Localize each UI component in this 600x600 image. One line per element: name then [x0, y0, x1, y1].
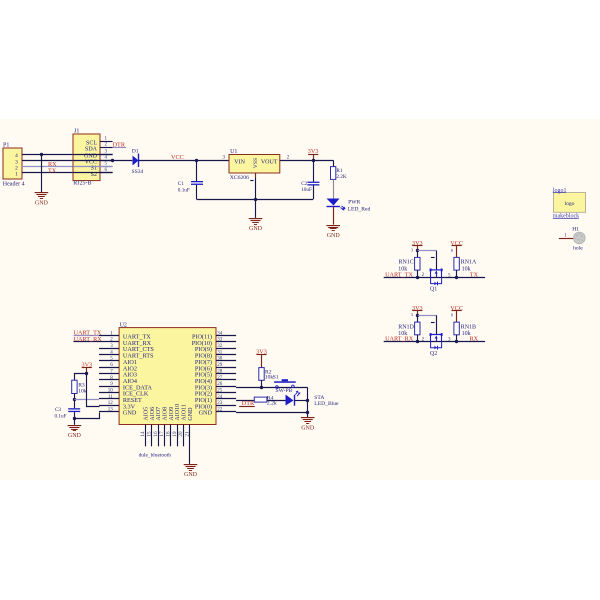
svg-text:LED_Blue: LED_Blue	[314, 401, 339, 407]
svg-text:GND: GND	[249, 226, 263, 232]
wire junction down to ground	[74, 418, 76, 424]
svg-text:GND: GND	[35, 200, 49, 206]
U2 left pin 6 stub	[99, 367, 119, 369]
U2 left pin 3 stub	[99, 348, 119, 350]
ground symbol GND (P1)	[35, 192, 49, 206]
logo frame logo1	[554, 193, 586, 213]
svg-text:RX: RX	[470, 336, 479, 343]
wire RN1B to row	[456, 335, 458, 342]
svg-text:0.1uF: 0.1uF	[178, 188, 190, 194]
svg-text:H1: H1	[572, 227, 579, 233]
wire U2 PIO(3) to switch row	[236, 387, 308, 389]
wire gate vertical	[436, 251, 438, 270]
wire GND row over J1	[73, 154, 113, 156]
diode D1 SS34	[133, 154, 139, 168]
gate bar tick	[431, 322, 435, 324]
svg-text:AIO7: AIO7	[156, 407, 162, 421]
U2 bottom pin 20 stub	[183, 425, 185, 447]
svg-text:R3: R3	[78, 382, 85, 388]
svg-text:SCL: SCL	[86, 140, 97, 146]
svg-text:S1: S1	[273, 375, 279, 381]
U2 left pin 2 stub	[99, 341, 119, 343]
U2 bottom pin 16 stub	[158, 425, 160, 447]
svg-text:GND: GND	[123, 410, 137, 417]
U2 right pin 28 stub	[216, 373, 236, 375]
svg-text:GND: GND	[327, 233, 341, 239]
svg-text:GND: GND	[199, 410, 213, 417]
capacitor C1 0.1uF	[191, 181, 203, 185]
svg-text:UART_RX: UART_RX	[74, 336, 103, 343]
junction on GND row	[40, 153, 43, 156]
svg-text:GND: GND	[184, 472, 198, 478]
regulator U1 XC6206	[229, 155, 280, 174]
supply symbol 3V3 (Q2)	[412, 305, 423, 316]
svg-text:RN1A: RN1A	[461, 260, 477, 266]
LED STA LED_Blue	[286, 391, 301, 406]
svg-text:D1: D1	[132, 149, 139, 155]
wire UART_TX row	[384, 277, 485, 279]
wire R2 bottom to row	[261, 380, 263, 387]
svg-text:SS34: SS34	[132, 169, 144, 175]
svg-text:DTR: DTR	[113, 141, 126, 148]
svg-text:2.2K: 2.2K	[336, 174, 346, 180]
svg-text:21: 21	[185, 431, 191, 437]
wire gate vertical	[436, 315, 438, 334]
svg-text:logo1: logo1	[553, 188, 567, 194]
resistor RN1B 10k	[454, 322, 459, 335]
svg-text:8: 8	[451, 312, 453, 317]
U2 left pin 7 stub	[99, 373, 119, 375]
wire S2 row over J1	[73, 172, 113, 174]
svg-text:GND: GND	[188, 407, 194, 421]
U2 bottom pin 18 stub	[170, 425, 172, 447]
svg-text:34: 34	[217, 331, 223, 336]
U2 right pin 33 stub	[216, 341, 236, 343]
DTR label underline	[239, 406, 255, 408]
junction R3/RESET	[73, 398, 76, 401]
svg-text:3: 3	[15, 159, 18, 165]
wire U1 vss to rail	[255, 178, 257, 199]
svg-text:3: 3	[411, 312, 413, 317]
supply symbol 3V3 (R2)	[256, 348, 267, 367]
U2 right pin 25 stub	[216, 392, 236, 394]
supply symbol VCC (Q2)	[450, 305, 463, 322]
wire R4 to LED_Blue	[267, 400, 286, 402]
wire 3V3 junction to RN1C	[417, 251, 419, 258]
svg-text:19: 19	[172, 431, 178, 437]
svg-text:10k: 10k	[78, 389, 87, 395]
svg-text:16: 16	[153, 431, 159, 437]
svg-text:AIO10: AIO10	[175, 404, 181, 421]
wire P1.1 to J1 S2 row	[22, 172, 113, 174]
gate bar tick	[431, 257, 435, 259]
wire C2 bottom to rail corner	[313, 186, 315, 200]
wire DTR net from U2 PIO(1)	[236, 400, 254, 402]
svg-text:10: 10	[108, 388, 114, 393]
svg-text:10k: 10k	[462, 266, 471, 272]
U2 right pin 31 stub	[216, 354, 236, 356]
svg-text:PWR: PWR	[348, 200, 360, 206]
svg-text:10k: 10k	[462, 331, 471, 337]
svg-text:12: 12	[108, 401, 114, 406]
svg-text:C3: C3	[55, 407, 61, 413]
U2 bottom pin 21 stub	[189, 425, 191, 464]
junction Q1 gate/3V3	[416, 249, 419, 252]
svg-text:J1: J1	[74, 128, 79, 134]
U2 left pin 10 stub	[99, 392, 119, 394]
U2 left pin 5 stub	[99, 360, 119, 362]
wire rail to ground symbol	[255, 199, 257, 218]
capacitor C2 10uF	[307, 182, 319, 186]
connector P1	[3, 148, 22, 179]
junction U1 ground at rail	[254, 198, 257, 201]
U2 left pin 9 stub	[99, 386, 119, 388]
wire R3 junction down to C3	[74, 400, 76, 408]
wire R3 bottom to junction	[74, 394, 76, 400]
svg-text:TX: TX	[48, 167, 57, 174]
svg-text:SW-PB: SW-PB	[276, 388, 293, 394]
U2 left pin 8 stub	[99, 379, 119, 381]
U2 right pin 29 stub	[216, 367, 236, 369]
wire gate horizontal (violet)	[417, 250, 436, 252]
ground symbol GND (LED_Blue)	[301, 417, 315, 432]
junction 3V3/C2	[312, 159, 315, 162]
junction RN1D row	[416, 340, 419, 343]
svg-text:26: 26	[217, 382, 223, 387]
svg-text:AIO5: AIO5	[143, 407, 149, 421]
wire R1 to LED anode	[333, 179, 335, 198]
switch S1 SW-PB	[274, 379, 296, 388]
svg-text:logo: logo	[565, 201, 575, 207]
wire 3V3 to R1	[333, 160, 335, 166]
svg-text:27: 27	[217, 376, 223, 381]
svg-text:UART_RX: UART_RX	[385, 336, 414, 343]
U2 right pin 27 stub	[216, 379, 236, 381]
wire VCC to RN1A handled; resistor RN1A 10k	[454, 257, 459, 270]
resistor RN1D 10k	[415, 322, 420, 335]
transistor Q2 dual MOSFET	[430, 333, 443, 349]
U2 right pin 32 stub	[216, 348, 236, 350]
svg-text:U1: U1	[230, 149, 237, 155]
svg-text:Header 4: Header 4	[3, 181, 25, 187]
svg-text:hole: hole	[573, 245, 583, 251]
H1 pin 1	[559, 238, 574, 240]
wire U2 GND pin22 row to vertical	[236, 412, 308, 414]
wire U1 VOUT to 3V3 junction	[280, 160, 333, 162]
svg-text:P1: P1	[3, 143, 9, 149]
wire P1.2 to J1 S1 row (RX net, violet)	[22, 166, 113, 168]
U2 right pin 26 stub	[216, 386, 236, 388]
wire 3V3 branch down to 3.3V row	[87, 374, 100, 407]
svg-text:10uF: 10uF	[301, 187, 312, 193]
svg-text:33: 33	[217, 338, 223, 343]
U2 bottom pin 14 stub	[145, 425, 147, 447]
ground symbol GND (C3)	[68, 425, 82, 439]
wire junction to R3 top	[75, 374, 87, 381]
svg-text:32: 32	[217, 344, 223, 349]
hole circle	[573, 232, 585, 244]
U2 left pin 13 stub	[99, 411, 119, 413]
svg-text:SDA: SDA	[85, 147, 98, 153]
svg-text:14: 14	[140, 431, 146, 437]
resistor R1 2.2K	[331, 167, 336, 180]
resistor R4 2.2k	[254, 397, 267, 402]
svg-text:RN1D: RN1D	[398, 324, 414, 330]
wire P1.3 to J1 VCC row	[22, 160, 113, 162]
U2 right pin 30 stub	[216, 360, 236, 362]
connector J1 RJ25-B	[73, 134, 100, 181]
svg-text:28: 28	[217, 369, 223, 374]
junction GND row/vertical	[306, 411, 309, 414]
svg-text:13: 13	[108, 408, 114, 413]
svg-text:GND: GND	[68, 433, 82, 439]
supply symbol VCC (Q1)	[450, 240, 463, 258]
J1 pin 1 stub	[100, 141, 113, 143]
U2 left pin 1 stub	[99, 335, 119, 337]
resistor RN1C 10k	[415, 257, 420, 270]
svg-text:VSS: VSS	[253, 158, 259, 168]
svg-text:UART_TX: UART_TX	[385, 272, 413, 279]
supply symbol 3V3 (R3)	[81, 361, 92, 373]
wire down to C1	[196, 160, 198, 181]
svg-text:0.1uF: 0.1uF	[55, 414, 67, 420]
svg-text:AIO6: AIO6	[150, 407, 156, 421]
wire RN1C to row	[417, 270, 419, 277]
U2 right pin 23 stub	[216, 405, 236, 407]
svg-text:LED_Red: LED_Red	[348, 206, 371, 212]
wire junction to ground	[41, 154, 43, 192]
junction C3/GND	[73, 417, 76, 420]
svg-text:RN1B: RN1B	[461, 324, 476, 330]
svg-text:8: 8	[451, 248, 453, 253]
wire LED cathode to ground	[333, 207, 335, 225]
svg-text:31: 31	[217, 350, 223, 355]
wire RESET net to U2 pin 11 (violet)	[74, 399, 99, 401]
svg-text:29: 29	[217, 363, 223, 368]
ground symbol GND (U1)	[249, 218, 263, 232]
svg-text:20: 20	[178, 431, 184, 437]
wire VCC row over J1	[73, 160, 113, 162]
svg-text:17: 17	[159, 431, 165, 437]
svg-text:GND: GND	[301, 426, 315, 432]
svg-text:2.2k: 2.2k	[267, 401, 277, 407]
U2 bottom pin 19 stub	[177, 425, 179, 447]
svg-text:RJ25-B: RJ25-B	[73, 181, 91, 187]
svg-text:30: 30	[217, 357, 223, 362]
svg-text:18: 18	[166, 431, 172, 437]
svg-text:Q1: Q1	[430, 287, 437, 293]
U1 pin number 1 tick	[250, 180, 253, 182]
wire J1 VCC row to D1 anode	[113, 160, 133, 162]
wire down to C2	[313, 160, 315, 181]
wire UART_RX row	[384, 341, 485, 343]
U2 left pin 12 stub	[99, 405, 119, 407]
svg-text:VCC: VCC	[171, 154, 184, 161]
svg-text:24: 24	[217, 395, 223, 400]
wire gate horizontal (violet)	[417, 315, 436, 317]
U2 right pin 22 stub	[216, 411, 236, 413]
wire P1.4 to J1 GND row	[22, 154, 113, 156]
wire C1 bottom to rail	[196, 185, 198, 199]
wire 3V3 junction to RN1D	[417, 315, 419, 322]
wire S1 row over J1 (violet)	[73, 166, 113, 168]
U2 left pin 4 stub	[99, 354, 119, 356]
wire RN1A to row	[456, 270, 458, 277]
U2 bottom pin 15 stub	[151, 425, 153, 447]
svg-text:15: 15	[146, 431, 152, 437]
svg-text:XC6206: XC6206	[230, 175, 249, 181]
svg-text:1: 1	[15, 172, 18, 178]
svg-text:2: 2	[15, 166, 18, 172]
svg-text:Q2: Q2	[430, 351, 437, 357]
svg-text:11: 11	[108, 395, 113, 400]
resistor R3 10k	[72, 380, 77, 393]
svg-text:dule_bluetooth: dule_bluetooth	[139, 452, 172, 458]
U2 left pin 11 stub	[99, 398, 119, 400]
svg-text:25: 25	[217, 388, 223, 393]
svg-text:AIO9: AIO9	[169, 407, 175, 421]
junction RN1C row	[416, 276, 419, 279]
wire DTR net from J1 pin2 (violet)	[113, 147, 127, 149]
junction at C1 branch	[195, 159, 198, 162]
wire switch right corner down	[307, 388, 309, 418]
LED PWR LED_Red	[327, 199, 346, 211]
wire C3 junction to U2 GND pin 13	[75, 413, 100, 419]
resistor R2 10k	[259, 368, 264, 381]
ground rail under U1	[197, 199, 314, 201]
wire RN1D to row	[417, 335, 419, 342]
U2 right pin 24 stub	[216, 398, 236, 400]
ground symbol GND (LED_Red)	[326, 225, 340, 239]
wire D1 cathode to U1 VIN (VCC net)	[139, 160, 229, 162]
U1 ground pin stub	[255, 173, 257, 178]
wire U2 pin2 UART_RX	[74, 341, 100, 343]
J1 pin 2 stub	[100, 147, 113, 149]
svg-text:C1: C1	[178, 181, 184, 187]
supply symbol 3V3 (U1 output)	[308, 148, 319, 160]
U2 bottom pin 17 stub	[164, 425, 166, 447]
svg-text:AIO8: AIO8	[162, 407, 168, 421]
svg-text:22: 22	[217, 408, 223, 413]
svg-text:VOUT: VOUT	[261, 159, 278, 165]
svg-text:U2: U2	[120, 323, 127, 329]
wire U2 pin1 UART_TX (violet)	[74, 335, 100, 337]
junction Q2 gate/3V3	[416, 314, 419, 317]
svg-text:VIN: VIN	[234, 159, 245, 165]
capacitor C3 0.1uF	[68, 408, 80, 412]
svg-text:3: 3	[411, 248, 413, 253]
supply symbol 3V3 (Q1)	[412, 240, 423, 251]
junction LED/vertical	[306, 399, 309, 402]
wire LED cathode to vertical	[295, 400, 308, 402]
svg-text:4: 4	[15, 153, 18, 159]
ground symbol GND (U2 pin 21)	[184, 464, 198, 478]
svg-text:23: 23	[217, 401, 223, 406]
svg-text:TX: TX	[470, 272, 479, 279]
junction R2 row	[260, 386, 263, 389]
junction RN1A row	[455, 276, 458, 279]
svg-text:AIO11: AIO11	[182, 404, 188, 420]
junction on VCC row at J1	[111, 159, 114, 162]
svg-text:RN1C: RN1C	[399, 260, 414, 266]
junction RN1B row	[455, 340, 458, 343]
U2 right pin 34 stub	[216, 335, 236, 337]
svg-text:R1: R1	[336, 168, 342, 174]
junction 3V3/R3 branch	[85, 372, 88, 375]
wire C3 bottom to junction	[74, 412, 76, 418]
transistor Q1 dual MOSFET	[430, 269, 443, 286]
